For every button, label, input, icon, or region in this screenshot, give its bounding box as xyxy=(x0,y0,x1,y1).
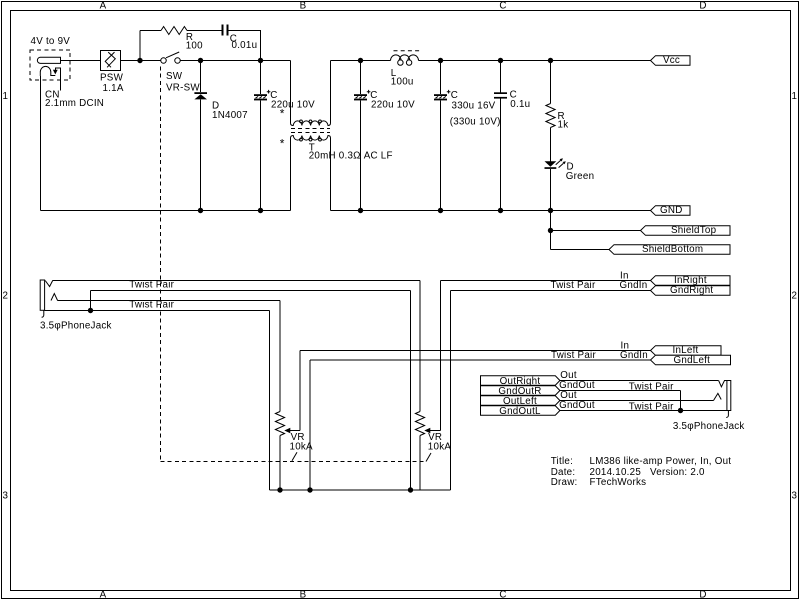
wire R-C branch riser xyxy=(139,31,141,61)
capacitor C1 plus sign xyxy=(267,90,271,94)
svg-text:0.1u: 0.1u xyxy=(510,99,530,110)
wire L to Vcc flag xyxy=(419,60,651,62)
output phone jack ring contact caret xyxy=(714,393,722,400)
switch SW contact circle left xyxy=(161,58,167,64)
wire GndLeft horizontal xyxy=(310,359,651,361)
wire diode to ground bus xyxy=(200,99,202,210)
wire branch to R xyxy=(140,30,161,32)
wire GndOutR horizontal xyxy=(560,390,681,392)
junction dot diode branch xyxy=(198,58,203,63)
svg-text:1N4007: 1N4007 xyxy=(212,110,248,121)
svg-text:PSW: PSW xyxy=(100,73,124,84)
capacitor C 0.1u plate bottom xyxy=(494,97,507,99)
transformer T primary winding xyxy=(291,121,331,126)
svg-text:2: 2 xyxy=(3,291,9,302)
capacitor C330 hatch marks xyxy=(436,96,446,98)
svg-text:Twist Pair: Twist Pair xyxy=(129,299,174,310)
inductor L loop 1 xyxy=(398,60,403,65)
capacitor C 0.1u plate top xyxy=(494,92,507,94)
svg-text:GndOutL: GndOutL xyxy=(499,406,541,417)
connector CN 2.1mm DC jack barrel xyxy=(37,57,60,63)
junction dot bus pair1 gnd xyxy=(408,487,413,492)
svg-text:Twist Pair: Twist Pair xyxy=(551,280,596,291)
wire sleeve pair2 xyxy=(45,310,270,312)
junction dot jack ground xyxy=(88,308,93,313)
potentiometer VR left zigzag xyxy=(275,412,284,436)
junction dot bus C1 xyxy=(258,208,263,213)
capacitor C2 220u plate bottom xyxy=(354,99,367,101)
svg-text:SW: SW xyxy=(166,71,183,82)
switch SW lever xyxy=(166,52,179,58)
LED light arrow 1 xyxy=(556,160,561,164)
net flag Vcc xyxy=(651,56,691,66)
potentiometer VR right zigzag xyxy=(415,412,424,436)
svg-text:GndIn: GndIn xyxy=(620,350,648,361)
resistor R 100 zigzag xyxy=(161,27,187,35)
svg-text:1.1A: 1.1A xyxy=(103,83,124,94)
capacitor C1 220u plate top xyxy=(254,94,267,96)
mechanical link dashed vertical from SW xyxy=(160,67,162,462)
svg-text:3: 3 xyxy=(3,491,9,502)
svg-text:GND: GND xyxy=(660,205,683,216)
mechanical link tick VR left xyxy=(292,452,297,461)
svg-text:10kA: 10kA xyxy=(428,442,452,453)
junction dot C1 branch xyxy=(258,58,263,63)
wire C330 to ground bus xyxy=(440,100,442,210)
svg-text:Version: 2.0: Version: 2.0 xyxy=(650,467,705,478)
wire SW to transformer xyxy=(180,60,290,62)
polyswitch PSW box xyxy=(101,51,121,71)
transformer T primary loop 3 xyxy=(319,120,322,123)
svg-text:FTechWorks: FTechWorks xyxy=(590,477,647,488)
transformer T primary loop 1 xyxy=(300,120,303,123)
wire VR right wiper riser xyxy=(440,281,442,431)
wire OutLeft to jack xyxy=(560,400,714,402)
wire gnd pair1 xyxy=(91,290,411,292)
svg-text:*: * xyxy=(280,106,285,120)
inductor L loop 2 xyxy=(406,60,411,65)
wire CN ground lead down xyxy=(39,76,41,211)
wire C330 top lead xyxy=(440,61,442,95)
transformer T core dashes xyxy=(291,129,330,133)
wire transformer primary right riser xyxy=(330,61,332,124)
svg-text:*: * xyxy=(280,136,285,150)
connector CN polarity arrow xyxy=(53,70,58,75)
svg-text:GndRight: GndRight xyxy=(670,285,713,296)
svg-text:ShieldTop: ShieldTop xyxy=(671,225,717,236)
junction dot R-LED branch xyxy=(548,58,553,63)
wire GndRight riser xyxy=(450,291,452,491)
junction dot output ground xyxy=(678,408,683,413)
input phone jack sleeve tail hook xyxy=(42,310,44,317)
net flag GndOutL xyxy=(481,406,560,415)
transformer T secondary loop 3 xyxy=(319,138,322,141)
net flag ShieldBottom xyxy=(609,245,730,255)
junction dot bus VR left xyxy=(277,487,282,492)
capacitor C330 plate bottom xyxy=(434,99,447,101)
bottom ground bus xyxy=(270,489,451,491)
svg-text:B: B xyxy=(300,590,307,600)
svg-text:B: B xyxy=(300,1,307,12)
svg-text:(330u 10V): (330u 10V) xyxy=(450,117,501,128)
switch SW contact circle right xyxy=(175,58,181,64)
wire R to C 0.01u xyxy=(187,30,222,32)
svg-text:3.5φPhoneJack: 3.5φPhoneJack xyxy=(673,421,745,432)
wire pair2 ring down to VR left xyxy=(279,301,281,412)
svg-text:Twist Pair: Twist Pair xyxy=(129,280,174,291)
net flag GndOutR xyxy=(481,386,560,395)
wire transformer secondary left to ground bus xyxy=(290,138,292,211)
capacitor C 0.01u plate right xyxy=(227,25,229,36)
capacitor C2 hatch marks xyxy=(356,96,366,98)
wire OutRight to jack xyxy=(560,380,719,382)
svg-text:A: A xyxy=(100,590,107,600)
svg-text:100u: 100u xyxy=(391,76,414,87)
svg-text:Twist Pair: Twist Pair xyxy=(629,402,674,413)
svg-text:Title:: Title: xyxy=(551,456,573,467)
LED D cathode bar xyxy=(545,167,557,169)
polyswitch PSW chevron 1 xyxy=(105,52,114,67)
svg-text:330u 16V: 330u 16V xyxy=(452,101,496,112)
transformer T secondary loop 1 xyxy=(300,138,303,141)
LED D triangle xyxy=(545,161,557,166)
diode D 1N4007 triangle xyxy=(194,94,207,99)
capacitor C2 plus sign xyxy=(367,90,371,94)
net flag GndRight xyxy=(651,286,731,296)
wire transformer secondary right to ground bus xyxy=(330,138,332,211)
polyswitch PSW chevron 2 xyxy=(107,52,115,67)
svg-text:GndIn: GndIn xyxy=(620,280,648,291)
capacitor C 0.01u plate left xyxy=(222,25,224,36)
capacitor C1 220u plate bottom hatched xyxy=(254,99,267,101)
svg-text:Draw:: Draw: xyxy=(551,477,578,488)
svg-text:2: 2 xyxy=(792,291,798,302)
wire pair2 gnd down to bottom bus xyxy=(269,311,271,491)
ground bus right segment xyxy=(331,210,651,212)
wire C2 to ground bus xyxy=(360,100,362,210)
potentiometer VR left wiper arrow xyxy=(284,428,290,433)
connector CN center pin hook xyxy=(40,66,55,76)
potentiometer VR left bottom lead xyxy=(279,436,281,491)
wire GndRight horizontal xyxy=(451,290,651,292)
svg-text:Twist Pair: Twist Pair xyxy=(629,382,674,393)
inductor L winding xyxy=(391,55,419,61)
wire LED to ground bus xyxy=(550,169,552,211)
junction dot bus LED xyxy=(548,208,553,213)
resistor R 1k zigzag xyxy=(546,104,555,128)
wire C 0.1u to ground bus xyxy=(500,99,502,211)
svg-text:Twist Pair: Twist Pair xyxy=(551,350,596,361)
junction dot bus C330 xyxy=(438,208,443,213)
wire ring pair2 xyxy=(58,300,280,302)
net flag OutRight xyxy=(481,376,560,385)
junction dot C 0.1u branch xyxy=(498,58,503,63)
wire GndOutR drop xyxy=(680,391,682,411)
transformer T primary loop 2 xyxy=(309,120,312,123)
svg-text:0.01u: 0.01u xyxy=(232,40,258,51)
wire pair1 tip down to VR right xyxy=(419,281,421,412)
capacitor C2 220u plate top xyxy=(354,94,367,96)
svg-text:A: A xyxy=(100,1,107,12)
wire right tip pair1 xyxy=(53,280,420,282)
svg-text:D: D xyxy=(699,590,706,600)
wire to ShieldTop flag xyxy=(551,230,641,232)
junction dot C330 branch xyxy=(438,58,443,63)
potentiometer VR right wiper arrow xyxy=(424,428,430,433)
mechanical link tick VR right xyxy=(426,453,431,462)
mechanical link dashed horizontal xyxy=(161,461,427,463)
inductor L core dash xyxy=(394,50,421,52)
input phone jack ring contact caret xyxy=(51,294,58,301)
wire rail transformer to L xyxy=(331,60,391,62)
svg-text:GndOut: GndOut xyxy=(559,400,595,411)
wire R 1k top lead xyxy=(550,61,552,104)
output phone jack tip contact V xyxy=(719,381,727,387)
svg-text:LM386 like-amp Power, In, Out: LM386 like-amp Power, In, Out xyxy=(590,456,732,467)
svg-text:220u 10V: 220u 10V xyxy=(371,99,415,110)
wire InLeft horizontal xyxy=(300,350,651,352)
junction dot bus diode xyxy=(198,208,203,213)
junction dot shieldtop xyxy=(548,228,553,233)
capacitor C330 plus sign xyxy=(447,90,451,94)
diode D 1N4007 cathode bar xyxy=(194,92,207,94)
wire VR left wiper riser xyxy=(299,351,301,431)
capacitor C1 hatch marks xyxy=(256,96,266,98)
svg-text:Green: Green xyxy=(566,171,594,182)
input phone jack body xyxy=(40,280,44,310)
wire InRight horizontal xyxy=(441,280,651,282)
svg-text:ShieldBottom: ShieldBottom xyxy=(642,244,703,255)
wire transformer primary left riser xyxy=(290,61,292,124)
svg-text:C: C xyxy=(499,590,506,600)
svg-text:GndLeft: GndLeft xyxy=(674,355,711,366)
svg-text:1k: 1k xyxy=(558,119,569,130)
net flag InRight xyxy=(651,276,731,286)
junction dot bus C2 xyxy=(358,208,363,213)
svg-text:Vcc: Vcc xyxy=(663,55,680,66)
svg-text:100: 100 xyxy=(186,40,203,51)
svg-text:3: 3 xyxy=(792,491,798,502)
wire shield stub down xyxy=(550,211,552,250)
junction dot bus C01 xyxy=(498,208,503,213)
wire diode anode riser xyxy=(200,61,202,93)
wire CN to PSW xyxy=(61,60,101,62)
potentiometer VR right bottom lead xyxy=(419,436,421,491)
net flag GndLeft xyxy=(651,355,731,365)
wire GndLeft riser xyxy=(309,360,311,490)
junction dot rail R-C branch xyxy=(137,58,142,63)
svg-text:220u 10V: 220u 10V xyxy=(271,99,315,110)
net flag GND xyxy=(651,206,691,216)
svg-text:C: C xyxy=(499,1,506,12)
svg-text:1: 1 xyxy=(3,91,9,102)
svg-text:3.5φPhoneJack: 3.5φPhoneJack xyxy=(40,320,112,331)
ground bus left segment xyxy=(40,210,290,212)
svg-text:4V to 9V: 4V to 9V xyxy=(31,36,71,47)
transformer T secondary loop 2 xyxy=(309,138,312,141)
wire gnd pair1 riser at jack xyxy=(90,291,92,311)
svg-text:D: D xyxy=(699,1,706,12)
wire to ShieldBottom flag xyxy=(551,249,610,251)
net flag ShieldTop xyxy=(641,226,731,236)
junction dot bus GndLeft xyxy=(307,487,312,492)
output phone jack sleeve tail hook xyxy=(726,411,728,418)
svg-text:2.1mm DCIN: 2.1mm DCIN xyxy=(45,98,104,109)
wire pair1 gnd down to bottom bus xyxy=(410,291,412,491)
input phone jack tip contact V xyxy=(45,281,53,287)
LED light arrow 2 xyxy=(559,163,564,167)
wire C1 top lead xyxy=(260,61,262,95)
svg-text:VR-SW: VR-SW xyxy=(166,83,200,94)
connector CN dashed enclosure xyxy=(30,50,70,80)
wire C1 to ground bus xyxy=(260,100,262,210)
wire PSW to SW xyxy=(121,60,161,62)
wire C2 top lead xyxy=(360,61,362,95)
transformer T secondary winding xyxy=(291,136,331,141)
net flag InLeft xyxy=(651,346,722,356)
svg-text:1: 1 xyxy=(792,91,798,102)
capacitor C330 plate top xyxy=(434,94,447,96)
wire C 0.1u top lead xyxy=(500,61,502,93)
connector CN polarity arrow stem wire xyxy=(55,68,60,90)
net flag OutLeft xyxy=(481,396,560,405)
svg-text:20mH 0.3Ω AC LF: 20mH 0.3Ω AC LF xyxy=(309,151,393,162)
wire R to LED xyxy=(550,128,552,162)
output phone jack body xyxy=(727,381,731,411)
wire C 0.01u to rail xyxy=(229,31,261,61)
junction dot C2 branch xyxy=(358,58,363,63)
wire GndOutL to jack xyxy=(560,410,727,412)
potentiometer VR right wiper wire xyxy=(429,430,441,432)
potentiometer VR left wiper wire xyxy=(289,430,300,432)
